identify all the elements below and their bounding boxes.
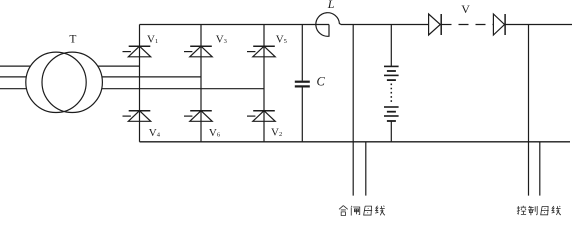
diode V (left of pair) (429, 14, 442, 35)
闸 (351, 206, 359, 216)
wire: bridge leg 3 vertical (263, 25, 265, 142)
合 (339, 206, 348, 216)
capacitor C branch wire lower (301, 88, 303, 142)
wire: drop to control bus (from rail) (528, 25, 530, 196)
diode V (right of pair) (493, 14, 505, 35)
wire: top rail after diodes (505, 24, 572, 26)
线 (375, 206, 385, 216)
svg-text:V1: V1 (147, 34, 158, 46)
label 合闸母线 (closing bus), drawn as vector strokes (339, 206, 385, 216)
wire: three-phase input line middle (0, 76, 26, 78)
transformer T primary winding circle (26, 52, 86, 112)
svg-text:V5: V5 (276, 34, 287, 46)
thyristor V1 (123, 46, 151, 57)
制 (528, 206, 537, 215)
wire: dashed link between diodes (459, 24, 494, 26)
wire: bridge leg 2 vertical (200, 25, 202, 142)
svg-text:V3: V3 (216, 34, 227, 46)
wire: negative bottom bus (140, 141, 571, 143)
母 (364, 206, 372, 215)
svg-text:V2: V2 (271, 126, 282, 138)
capacitor C plates (295, 82, 310, 87)
inductor L loop (316, 13, 429, 37)
label 控制母线 (control bus), drawn as vector strokes (517, 206, 561, 215)
wire: solid stub after first diode (441, 24, 451, 26)
wire: three-phase input line bottom (0, 88, 27, 90)
thyristor V6 (184, 111, 212, 122)
transformer T secondary winding circle (42, 52, 102, 112)
battery GB top wire (390, 25, 392, 67)
wire: drop to control bus (from bottom bus) (539, 142, 541, 196)
svg-text:C: C (317, 74, 326, 88)
svg-text:L: L (327, 0, 335, 11)
wire: three-phase input line top (0, 65, 31, 67)
svg-text:V6: V6 (209, 127, 221, 139)
线 (552, 206, 561, 215)
thyristor V3 (184, 46, 212, 57)
wire: drop to closing bus (from bottom bus) (365, 142, 367, 196)
wire: positive top rail from bridge to inductor (140, 24, 330, 26)
battery cell plates lower group (384, 107, 399, 121)
wire: secondary phase c to leg 3 (102, 88, 264, 90)
控 (517, 206, 526, 215)
thyristor V4 (123, 111, 151, 122)
battery GB bottom wire (390, 121, 392, 142)
svg-text:V4: V4 (149, 127, 161, 139)
thyristor V2 (247, 111, 275, 122)
capacitor C branch wire upper (301, 25, 303, 81)
thyristor V5 (247, 46, 275, 57)
svg-text:V: V (461, 2, 470, 16)
wire: bridge leg 1 vertical (139, 25, 141, 142)
battery dotted continuation (390, 84, 392, 103)
母 (541, 206, 549, 214)
wire: secondary phase b to leg 2 (102, 76, 201, 78)
svg-text:T: T (69, 34, 76, 46)
wire: drop to closing bus (from rail) (352, 25, 354, 196)
wire: secondary phase a to leg 1 (98, 65, 140, 67)
battery cell plates upper group (384, 66, 399, 80)
